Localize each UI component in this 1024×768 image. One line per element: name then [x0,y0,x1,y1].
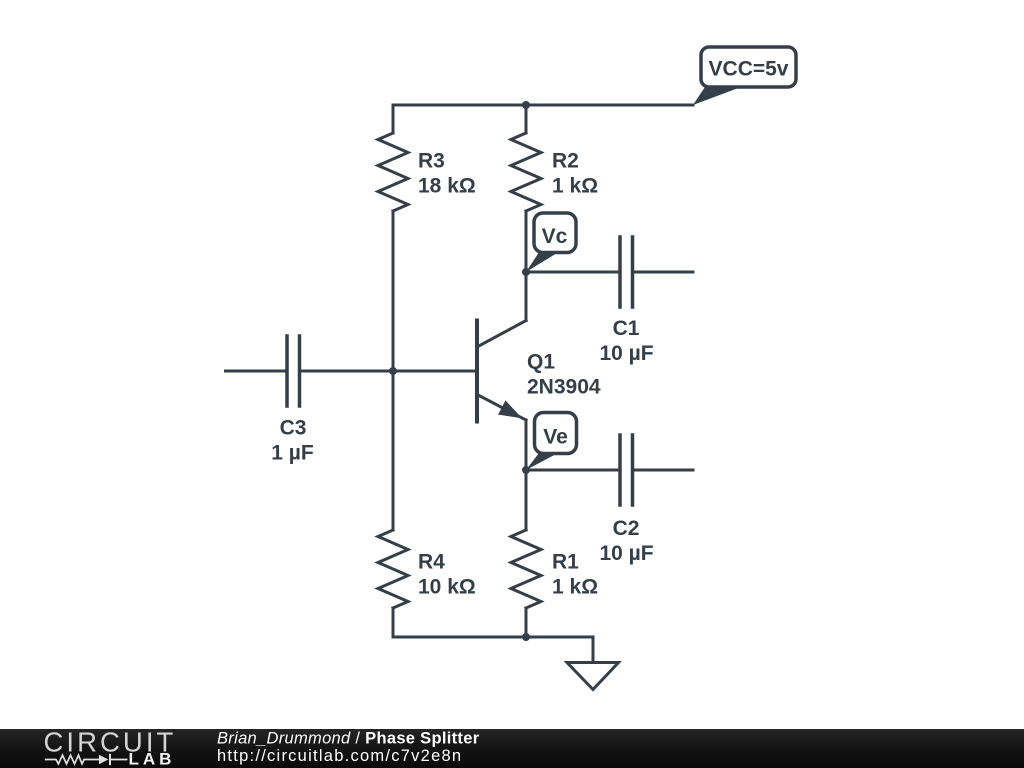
svg-text:R3: R3 [418,150,445,173]
footer bar [0,729,1024,768]
flag Ve [526,413,577,471]
wire: C2 right output [633,469,694,472]
wire: ground drop [592,637,595,662]
wire: collector stub [525,272,528,321]
resistor R4 label [418,551,476,599]
wire: base wire from node to Q1 [393,370,475,373]
wire: R2 bottom to Vc node [525,211,528,272]
wire: R1 bottom lead [525,608,528,637]
capacitor C3 [287,336,300,406]
resistor R1 label [552,551,598,599]
svg-text:2N3904: 2N3904 [527,376,601,399]
svg-text:Ve: Ve [543,426,568,449]
capacitor C2 label [599,517,653,565]
wire: R3 bottom to base node to R4 top [392,211,395,530]
svg-text:1 kΩ: 1 kΩ [552,576,598,599]
wire: Ve node to C2 left plate [526,469,620,472]
wire: R3 top lead [392,105,395,133]
node: top rail / R2 junction [522,101,530,109]
node: base junction [389,367,397,375]
resistor R4 [378,530,408,608]
svg-text:10 µF: 10 µF [599,542,653,565]
capacitor C1 label [599,317,653,365]
ground symbol [567,663,619,690]
wire: bottom ground rail [393,636,593,639]
svg-text:R2: R2 [552,150,579,173]
svg-text:Vc: Vc [542,225,568,248]
transistor Q1 [477,321,526,422]
wire: input lead [226,370,288,373]
resistor R1 [511,530,541,608]
svg-text:VCC=5v: VCC=5v [709,58,789,81]
svg-text:1 kΩ: 1 kΩ [552,175,598,198]
footer url text [217,747,462,765]
capacitor C1 [620,237,633,307]
resistor R2 [511,133,541,211]
footer title text [217,730,480,748]
node: R1 / ground rail junction [522,633,530,641]
svg-text:18 kΩ: 18 kΩ [418,175,476,198]
capacitor C2 [620,435,633,505]
wire: Ve node to R1 top [525,470,528,530]
resistor R2 label [552,150,598,198]
svg-text:Q1: Q1 [527,351,555,374]
svg-text:LAB: LAB [129,750,176,768]
capacitor C3 label [271,417,314,465]
resistor R3 label [418,150,476,198]
VCC=5v net flag [693,47,796,105]
svg-text:R1: R1 [552,551,579,574]
wire: VCC top rail [393,104,693,107]
node Ve [522,466,530,474]
transistor Q1 label [527,351,601,399]
svg-text:C1: C1 [613,317,640,340]
CircuitLab logo: resistor + diode + LAB [45,750,176,768]
wire: Vc node to C1 left plate [526,271,620,274]
svg-text:C3: C3 [280,417,307,440]
svg-text:C2: C2 [613,517,640,540]
CircuitLab logo: CIRCUIT [44,727,177,758]
svg-text:10 µF: 10 µF [599,342,653,365]
node Vc [522,268,530,276]
wire: C1 right output [633,271,694,274]
svg-text:http://circuitlab.com/c7v2e8n: http://circuitlab.com/c7v2e8n [217,747,462,765]
svg-text:R4: R4 [418,551,445,574]
svg-text:1 µF: 1 µF [271,442,314,465]
wire: R4 bottom lead [392,608,395,637]
wire: emitter stub to Ve node [525,420,528,470]
flag Vc [526,213,576,272]
resistor R3 [378,133,408,211]
wire: R2 top lead [525,105,528,133]
svg-text:Brian_Drummond / Phase Splitte: Brian_Drummond / Phase Splitter [217,730,480,748]
wire: C3 to base node [300,370,394,373]
svg-text:10 kΩ: 10 kΩ [418,576,476,599]
